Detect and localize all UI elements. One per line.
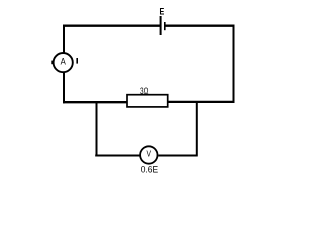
voltmeter V <box>140 146 158 174</box>
wire bottom-right horizontal <box>168 101 235 103</box>
svg-text:A: A <box>61 56 67 67</box>
wire bottom-left horizontal <box>63 101 128 103</box>
label I (current) <box>76 58 78 64</box>
svg-text:3Ω: 3Ω <box>140 85 148 96</box>
wire branch bottom-right horizontal <box>158 154 197 156</box>
resistor 3Ω <box>127 85 168 107</box>
svg-text:E: E <box>160 7 165 18</box>
wire left vertical lower <box>63 72 65 103</box>
wire left vertical upper <box>63 25 65 54</box>
battery E <box>160 7 165 36</box>
wire top-right horizontal <box>165 25 235 27</box>
wire branch left vertical <box>96 102 98 157</box>
wire branch right vertical <box>196 101 198 156</box>
wire right vertical <box>233 25 235 103</box>
svg-text:V: V <box>147 150 152 159</box>
wire branch bottom-left horizontal <box>95 154 140 156</box>
wire top-left horizontal <box>63 25 161 27</box>
svg-text:0.6E: 0.6E <box>141 165 158 175</box>
ammeter A <box>51 53 73 72</box>
